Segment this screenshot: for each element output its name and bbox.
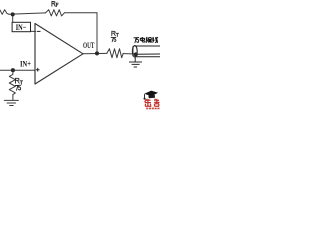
cable bottom line bbox=[135, 56, 160, 58]
resistor 75 (series output) bbox=[107, 49, 123, 58]
resistor (input, partially cut at left edge) bbox=[0, 10, 9, 15]
char 缆 bbox=[146, 37, 152, 43]
cable center conductor bbox=[136, 53, 160, 55]
label 75 (series resistor value) bbox=[111, 37, 116, 41]
watermark logo: small red text line bbox=[146, 108, 159, 110]
label RT (series resistor) bbox=[112, 31, 119, 36]
op-amp plus sign bbox=[36, 68, 40, 72]
IN- terminal box bbox=[12, 22, 30, 31]
output node junction dot bbox=[95, 51, 99, 55]
wire IN+ input bbox=[0, 69, 35, 71]
wire node A down to IN- box bbox=[12, 14, 14, 22]
resistor RF bbox=[46, 10, 65, 16]
coax center dot bbox=[134, 52, 138, 56]
label 75 cable bbox=[134, 38, 139, 43]
ground (right) bbox=[129, 62, 142, 67]
cable end cap line bbox=[132, 46, 134, 56]
char 电 bbox=[140, 37, 145, 43]
wire node A to RF bbox=[9, 13, 46, 14]
node A junction dot bbox=[11, 12, 15, 16]
op-amp U1 bbox=[35, 24, 83, 85]
wire feedback vertical bbox=[96, 13, 98, 54]
label 75 (left resistor value) bbox=[15, 85, 20, 90]
wire op-amp output bbox=[83, 52, 107, 54]
resistor RT (termination, vertical) bbox=[9, 70, 15, 94]
wire resistor to cable bbox=[123, 53, 134, 55]
op-amp minus sign bbox=[37, 30, 41, 32]
label 电缆 (cable) drawn glyphs bbox=[140, 37, 158, 43]
svg-text:OUT: OUT bbox=[83, 40, 95, 50]
watermark logo: red characters bbox=[145, 99, 160, 107]
cable top line bbox=[135, 45, 160, 47]
label RT (left resistor) bbox=[16, 78, 23, 84]
wire IN- box to op-amp bbox=[31, 30, 36, 32]
ground (left) bbox=[4, 100, 18, 105]
label RF bbox=[52, 1, 58, 6]
watermark logo: graduation cap bbox=[144, 91, 159, 100]
cable shield to ground wire bbox=[134, 57, 136, 62]
char 线 bbox=[152, 37, 158, 43]
svg-text:IN−: IN− bbox=[16, 22, 27, 32]
wire RT to ground bbox=[12, 95, 14, 101]
cable end ellipse bbox=[132, 46, 137, 57]
wire RF to feedback corner bbox=[64, 12, 97, 14]
node B junction dot (IN+) bbox=[11, 68, 15, 72]
svg-text:IN+: IN+ bbox=[20, 59, 31, 69]
coax cable body bbox=[132, 46, 160, 62]
